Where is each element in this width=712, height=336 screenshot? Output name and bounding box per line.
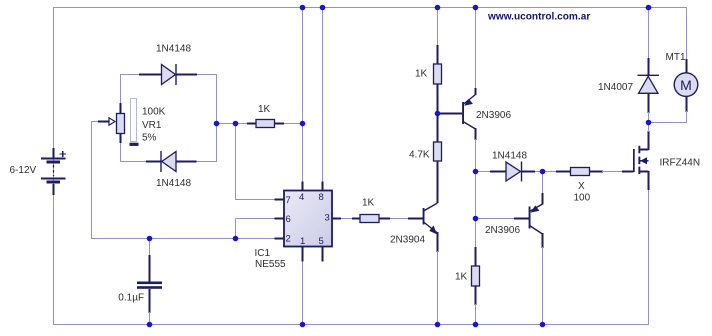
transistor Q1 2N3904 [408, 203, 438, 325]
svg-text:1: 1 [300, 236, 305, 247]
svg-text:2: 2 [286, 234, 291, 245]
svg-text:5%: 5% [142, 133, 157, 144]
wire pin6 to pin2 [236, 219, 275, 239]
label X 100 [574, 181, 591, 204]
wire pot-diode loop box [121, 75, 217, 162]
svg-text:4.7K: 4.7K [409, 150, 430, 161]
svg-text:5: 5 [319, 236, 324, 247]
svg-text:MT1: MT1 [666, 52, 686, 63]
label 2N3906 [476, 110, 511, 121]
wire top power rail [54, 8, 687, 196]
wire pin3 to R2 [341, 218, 353, 220]
wire mid node column [475, 172, 477, 249]
svg-text:NE555: NE555 [255, 259, 286, 270]
svg-text:4: 4 [299, 192, 304, 203]
label 1K [415, 69, 428, 80]
wire pin1 to ground [302, 254, 304, 325]
wire Vcc drop to R3 [437, 8, 439, 47]
svg-text:1K: 1K [415, 69, 428, 80]
svg-text:100: 100 [574, 193, 591, 204]
label 1N4148 top [156, 44, 191, 55]
node dots middle [147, 111, 652, 242]
label www.ucontrol.com.ar [487, 12, 590, 23]
node dots top rail [300, 5, 652, 11]
svg-text:1N4148: 1N4148 [156, 44, 191, 55]
node dots bottom rail [147, 322, 546, 328]
diode D2 1N4148 bottom [146, 151, 197, 172]
resistor R1 1K (pot to Vcc) [247, 120, 284, 128]
svg-text:3: 3 [325, 213, 330, 224]
resistor R5 1K (lower) [472, 247, 480, 325]
wire Vcc drop to pin4 [302, 8, 304, 183]
wire wiper to trigger node [92, 122, 275, 239]
diode D3 1N4148 (to gate) [476, 162, 543, 182]
wire bottom ground rail [54, 190, 649, 325]
diode D4 1N4007 [638, 8, 660, 123]
label 1K [258, 104, 271, 115]
svg-text:6-12V: 6-12V [10, 165, 37, 176]
label IC1 NE555 [255, 248, 287, 270]
svg-text:1N4007: 1N4007 [598, 82, 633, 93]
capacitor C1 0.1uF [137, 239, 162, 325]
label 2N3906 [485, 225, 520, 236]
label 1N4148 [492, 150, 527, 161]
label 1N4148 bottom [156, 178, 191, 189]
label 1K [455, 272, 468, 283]
svg-text:X: X [578, 181, 585, 192]
battery B1 6-12V [41, 148, 66, 195]
svg-text:2N3904: 2N3904 [390, 235, 425, 246]
resistor R6 X 100 [543, 168, 624, 176]
label IRFZ44N [660, 157, 701, 168]
wire pin7 to pot junction [236, 124, 275, 200]
label 6-12V [10, 165, 37, 176]
wire pot junction row [217, 123, 303, 125]
label 4.7K [409, 150, 430, 161]
svg-text:1K: 1K [455, 272, 468, 283]
svg-text:IC1: IC1 [255, 248, 271, 259]
label 0.1uF [118, 293, 144, 304]
svg-text:IRFZ44N: IRFZ44N [660, 157, 701, 168]
svg-text:100K: 100K [142, 107, 166, 118]
label 1K [362, 198, 375, 209]
resistor R2 1K (base 2N3904) [352, 215, 409, 223]
svg-text:8: 8 [319, 192, 324, 203]
svg-text:M: M [680, 77, 692, 93]
svg-text:2N3906: 2N3906 [485, 225, 520, 236]
diode D1 1N4148 top [139, 64, 197, 85]
label 1N4007 [598, 82, 633, 93]
wire Vcc drop to pin8 [322, 8, 324, 183]
svg-text:www.ucontrol.com.ar: www.ucontrol.com.ar [487, 12, 590, 23]
label 2N3904 [390, 235, 425, 246]
label 100K VR1 5% [142, 107, 166, 144]
label MT1 [666, 52, 686, 63]
svg-text:VR1: VR1 [142, 120, 162, 131]
svg-text:2N3906: 2N3906 [476, 110, 511, 121]
motor MT1 [649, 59, 698, 123]
svg-text:6: 6 [286, 214, 291, 225]
svg-text:0.1µF: 0.1µF [118, 293, 144, 304]
transistor Q3 2N3906 lower [476, 172, 543, 325]
resistor R4 4.7K [434, 142, 442, 203]
pin numbers 555 [286, 192, 330, 247]
potentiometer VR1 [98, 103, 125, 143]
op-amp U1 NE555 timer box [275, 182, 342, 262]
svg-text:1N4148: 1N4148 [156, 178, 191, 189]
svg-text:1K: 1K [258, 104, 271, 115]
transistor Q2 2N3906 upper [438, 8, 476, 172]
transistor U2 IRFZ44N mosfet [622, 123, 649, 191]
svg-text:1K: 1K [362, 198, 375, 209]
svg-text:7: 7 [286, 195, 291, 206]
VR1 slider track [130, 99, 139, 146]
svg-text:1N4148: 1N4148 [492, 150, 527, 161]
resistor R3 1K (upper) [434, 45, 442, 142]
